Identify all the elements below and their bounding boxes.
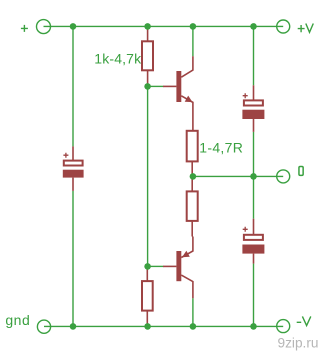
wire C2 bottom net xyxy=(253,132,255,177)
junction bottom R3 xyxy=(144,323,151,330)
junction mid C3 column xyxy=(250,173,257,180)
resistor R1 pin bottom xyxy=(147,70,149,86)
wire left vertical lower (from C1) xyxy=(72,191,74,327)
transistor Q1 base pin xyxy=(163,85,176,87)
svg-text:1k-4,7k: 1k-4,7k xyxy=(94,50,142,66)
junction bottom Q2 collector xyxy=(190,323,197,330)
resistor R2 pin bottom xyxy=(191,161,193,176)
wire Q1 collector net xyxy=(192,26,194,56)
wire bottom rail xyxy=(44,325,283,327)
capacitor C2 pin bottom xyxy=(253,119,255,132)
transistor Q2 base pin xyxy=(163,265,176,267)
resistor R1 pin top xyxy=(147,26,149,41)
svg-text:9zip.ru: 9zip.ru xyxy=(278,336,319,351)
resistor R4 pin bottom xyxy=(191,221,193,237)
capacitor C3 top plate xyxy=(244,235,263,240)
junction Q2 base xyxy=(144,263,151,270)
resistor R3 body xyxy=(142,281,153,311)
resistor R4 body xyxy=(187,191,198,221)
terminal circle 0 xyxy=(277,170,290,183)
junction top Q1 collector xyxy=(190,23,197,30)
capacitor C1 pin bottom xyxy=(72,178,74,191)
transistor Q2 collector lead xyxy=(181,275,193,298)
resistor R1 body xyxy=(142,41,153,70)
label +V xyxy=(298,24,314,33)
junction Q1 base xyxy=(144,83,151,90)
capacitor C1 plus mark xyxy=(63,153,68,158)
wire left vertical upper (to C1) xyxy=(72,26,74,146)
transistor Q1 base bar xyxy=(176,71,181,102)
capacitor C2 pin top xyxy=(253,85,255,100)
wire Q2 base stub xyxy=(148,265,164,267)
transistor Q2 emitter arrow xyxy=(182,251,190,258)
terminal circle -V xyxy=(277,320,290,333)
capacitor C2 top plate xyxy=(244,100,263,105)
junction top R1 xyxy=(144,23,151,30)
capacitor C3 bottom plate xyxy=(242,245,264,254)
wire Q1 base stub xyxy=(148,85,164,87)
transistor Q1 emitter lead xyxy=(181,96,193,131)
transistor Q1 collector lead xyxy=(181,56,193,77)
junction bottom-left xyxy=(70,323,77,330)
capacitor C1 pin top xyxy=(72,146,74,160)
wire mid output net xyxy=(193,175,283,177)
capacitor C1 top plate xyxy=(64,161,83,166)
capacitor C3 plus mark xyxy=(243,227,248,232)
terminal circle +V xyxy=(277,20,290,33)
wire base bus vertical xyxy=(147,86,149,266)
capacitor C2 bottom plate xyxy=(242,110,264,119)
capacitor C3 pin top xyxy=(253,219,255,235)
terminal circle gnd xyxy=(37,320,50,333)
label -V xyxy=(297,316,311,325)
junction bottom C3 xyxy=(250,323,257,330)
terminal circle input plus xyxy=(37,20,51,34)
transistor Q1 emitter arrow xyxy=(185,96,193,103)
wire Q2 collector net xyxy=(192,298,194,326)
capacitor C2 plus mark xyxy=(243,93,248,98)
junction top-left xyxy=(70,23,77,30)
wire C3 top net xyxy=(253,176,255,218)
svg-text:gnd: gnd xyxy=(5,312,30,328)
transistor Q2 emitter lead xyxy=(181,237,193,258)
wire top rail xyxy=(44,25,284,27)
label 0 xyxy=(299,166,303,175)
svg-text:1-4,7R: 1-4,7R xyxy=(199,139,243,155)
label plus input xyxy=(21,25,28,32)
resistor R4 pin top xyxy=(191,176,193,191)
junction mid resistor column xyxy=(190,173,197,180)
wire C3 bottom net xyxy=(253,264,255,327)
junction top C2 xyxy=(250,23,257,30)
resistor R3 pin top xyxy=(146,266,148,281)
resistor R2 body xyxy=(187,131,198,162)
transistor Q2 base bar xyxy=(176,251,181,281)
capacitor C1 bottom plate xyxy=(63,170,84,178)
wire C2 top net xyxy=(253,26,255,85)
resistor R3 pin bottom xyxy=(146,311,148,327)
capacitor C3 pin bottom xyxy=(253,254,255,264)
